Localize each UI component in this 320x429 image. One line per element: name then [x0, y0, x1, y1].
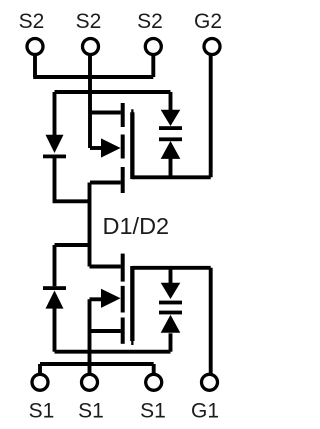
wire diode D-top anode drop [53, 92, 57, 135]
zener Z1 lower triangle [161, 315, 181, 333]
wire zener Z1 bottom [169, 333, 173, 351]
wire Q1 gate horizontal to G1 [132, 266, 210, 270]
wire G1 vertical [209, 268, 213, 375]
transistor Q1 gate bar [130, 266, 134, 341]
wire diode D-bottom anode drop [53, 308, 57, 351]
svg-text:S2: S2 [76, 10, 102, 33]
wire S2 pin3 to bus [151, 55, 155, 78]
wire G2 vertical [209, 55, 213, 178]
wire Q2 source horizontal [90, 111, 121, 115]
wire zener Z2 top [169, 92, 173, 110]
transistor Q2 body arrow head [101, 138, 121, 157]
wire Q2 body arrow tail [90, 146, 102, 150]
svg-text:D1/D2: D1/D2 [103, 213, 170, 239]
transistor Q2 channel middle dash [121, 135, 125, 159]
wire Q1 drain horizontal [90, 265, 121, 269]
wire S1 bus bottom [40, 362, 154, 366]
terminal S1 pin2 circle [82, 374, 98, 390]
transistor Q2 channel top dash [121, 103, 125, 127]
zener Z2 upper triangle [161, 110, 181, 126]
zener Z1 upper triangle [161, 283, 181, 299]
wire diode D-top cathode to drain [55, 156, 90, 202]
terminal S1 pin1 circle [32, 374, 48, 390]
wire S1 pin3 riser [152, 364, 156, 375]
wire Q1 source horizontal [90, 329, 121, 333]
svg-text:S1: S1 [78, 400, 104, 423]
wire Q1 body arrow tail [90, 297, 103, 301]
wire S2 pin2 down to body arrow [88, 55, 92, 149]
transistor Q2 channel bottom dash [121, 167, 125, 193]
diode D-bottom cathode bar [43, 286, 66, 290]
terminal S2 pin3 circle [145, 39, 161, 55]
transistor Q1 gate bar tip [131, 341, 133, 345]
svg-text:G2: G2 [194, 10, 222, 33]
wire Q2 gate horizontal to G2 [132, 175, 210, 179]
zener Z1 lower cathode bar [159, 311, 182, 315]
wire S1 pin1 riser [38, 364, 42, 375]
terminal S2 pin1 circle [27, 39, 43, 55]
transistor Q1 channel top dash [121, 254, 125, 282]
wire S2 bus top [33, 75, 153, 79]
svg-text:G1: G1 [191, 400, 219, 423]
svg-text:S1: S1 [29, 400, 55, 423]
wire Q2 drain horizontal [90, 181, 121, 185]
transistor Q2 gate bar [130, 112, 134, 179]
wire bottom source rail [55, 350, 171, 354]
terminal G1 circle [202, 374, 218, 390]
transistor Q1 channel middle dash [121, 286, 125, 313]
wire Q1 body vertical down to S1 [88, 299, 92, 374]
transistor Q2 gate bar tip [131, 109, 133, 113]
transistor Q1 body arrow head [101, 289, 121, 308]
wire top source rail [55, 90, 171, 94]
wire diode D-bottom cathode to drain [55, 245, 90, 286]
transistor Q1 channel bottom dash [121, 318, 125, 344]
diode D-top cathode bar [43, 155, 66, 159]
wire S2 pin1 to bus [33, 55, 37, 78]
zener Z2 lower triangle [161, 141, 181, 159]
zener Z1 upper cathode bar [159, 301, 182, 305]
terminal S1 pin3 circle [146, 374, 162, 390]
diode D-bottom triangle [46, 291, 64, 309]
svg-text:S2: S2 [137, 10, 163, 33]
zener Z2 upper cathode bar [159, 126, 182, 130]
wire zener Z1 top [169, 268, 173, 283]
svg-text:S2: S2 [19, 10, 45, 33]
terminal S2 pin2 circle [83, 39, 99, 55]
wire zener Z2 bottom [169, 159, 173, 178]
terminal G2 circle [204, 39, 220, 55]
diode D-top triangle [46, 135, 64, 153]
wire common drain vertical D1/D2 [88, 183, 92, 267]
svg-text:S1: S1 [140, 400, 166, 423]
zener Z2 lower cathode bar [159, 137, 182, 141]
